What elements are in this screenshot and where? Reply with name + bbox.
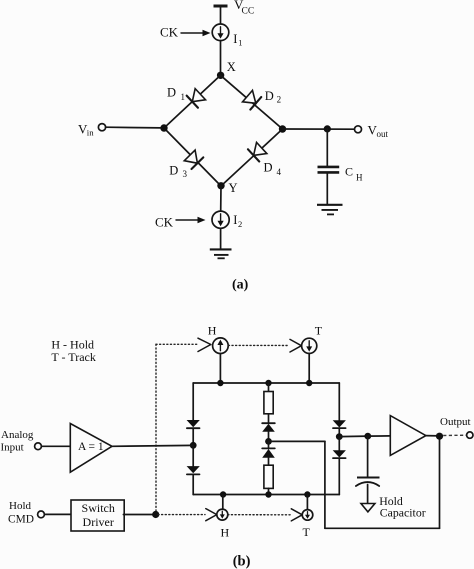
svg-text:CC: CC xyxy=(242,7,255,17)
dotted control line: to top H source xyxy=(156,343,198,345)
diode (left top, down) xyxy=(187,420,200,428)
wire hold node to buffer xyxy=(368,435,391,437)
junction middle column / rail xyxy=(265,491,271,497)
label D3 xyxy=(169,163,187,179)
feedback wire: down xyxy=(324,441,326,528)
svg-text:D: D xyxy=(264,161,273,175)
Vcc supply bar xyxy=(214,0,255,17)
output node xyxy=(436,433,443,440)
wire X to left node xyxy=(164,75,221,128)
svg-text:H: H xyxy=(356,172,363,182)
dotted control line: vertical xyxy=(155,344,157,514)
left column wire (top) xyxy=(192,383,194,420)
arrowhead into bottom T source xyxy=(291,509,302,521)
wire mid node to lower diode xyxy=(268,441,270,448)
svg-text:Switch: Switch xyxy=(82,501,115,515)
wire hold node to capacitor xyxy=(367,436,369,476)
left mid node (input tap) xyxy=(190,442,197,449)
label D1 xyxy=(167,86,185,103)
svg-text:T - Track: T - Track xyxy=(51,350,95,364)
junction node (CH tap) xyxy=(324,125,331,132)
ground (below CH) xyxy=(317,205,343,215)
svg-text:Hold: Hold xyxy=(9,500,32,512)
svg-text:Capacitor: Capacitor xyxy=(380,506,426,520)
left column wire (bottom) xyxy=(192,474,194,494)
analog ground arrow xyxy=(361,504,375,512)
feedback wire: mid node right xyxy=(269,440,325,442)
op-amp A=1 xyxy=(70,424,112,473)
svg-text:3: 3 xyxy=(183,169,188,179)
svg-text:2: 2 xyxy=(238,219,242,229)
svg-text:CMD: CMD xyxy=(8,514,34,526)
wire right node to Vout xyxy=(283,128,355,130)
bottom rail xyxy=(193,494,339,496)
dotted control line: H to T xyxy=(228,344,289,346)
resistor (middle top) xyxy=(264,392,273,414)
current source T (bottom) xyxy=(302,510,313,521)
Vout terminal xyxy=(355,123,389,140)
stem T source to top rail xyxy=(308,353,310,383)
wire diode to mid node xyxy=(268,432,270,442)
stem rail to bottom H source xyxy=(222,495,224,510)
diode (left bottom, down) xyxy=(187,466,200,474)
svg-text:D: D xyxy=(167,86,176,100)
diode D4 xyxy=(248,142,267,162)
top rail xyxy=(193,382,339,384)
diode D1 xyxy=(187,88,206,108)
wire right node to Y xyxy=(221,129,283,186)
junction bottom T / rail xyxy=(304,491,310,497)
wire amp to left mid node xyxy=(112,444,193,447)
diode D2 xyxy=(242,90,261,110)
svg-text:CK: CK xyxy=(160,25,179,40)
wire right mid to lower diode xyxy=(338,437,340,451)
output buffer xyxy=(390,416,426,456)
current source H (top) xyxy=(213,338,229,354)
svg-text:CK: CK xyxy=(155,215,174,230)
Analog Input terminal xyxy=(35,443,42,450)
right mid node (output tap) xyxy=(336,433,343,440)
wire left node to Y xyxy=(164,128,221,186)
junction T / top rail xyxy=(306,380,312,386)
wire switch driver to junction xyxy=(123,514,154,516)
svg-text:H: H xyxy=(221,526,230,540)
wire right mid node to hold node xyxy=(339,435,368,438)
node X xyxy=(217,60,236,79)
arrowhead into top T source xyxy=(290,339,301,352)
wire Vcc to I1 xyxy=(220,6,222,24)
Analog Input label xyxy=(1,429,34,454)
svg-text:Y: Y xyxy=(229,181,238,195)
svg-text:4: 4 xyxy=(277,167,282,177)
arrowhead into top H source xyxy=(198,338,211,351)
switch driver box xyxy=(71,500,124,531)
wire terminal to amp xyxy=(41,445,70,447)
ground (below I2) xyxy=(210,249,232,258)
wire buffer to output node xyxy=(426,435,440,437)
wire junction to CH xyxy=(326,129,328,166)
diode (middle top, up) xyxy=(262,423,275,432)
stem rail to bottom T source xyxy=(306,495,308,510)
wire to left mid node xyxy=(192,428,194,445)
current source H (bottom) xyxy=(217,509,228,520)
CK arrow into I1 xyxy=(181,30,211,36)
dotted control line: bottom H to T xyxy=(228,514,291,516)
svg-text:X: X xyxy=(227,60,236,74)
arrowhead into bottom H source xyxy=(206,509,217,521)
junction H / top rail xyxy=(217,380,223,386)
feedback wire: bottom xyxy=(325,527,440,529)
Hold Capacitor label xyxy=(379,494,426,520)
right bridge node xyxy=(279,125,286,132)
svg-text:out: out xyxy=(377,129,389,139)
middle column wire (top) xyxy=(268,383,270,392)
svg-text:(a): (a) xyxy=(232,278,249,293)
diode (right top, down) xyxy=(333,420,346,428)
svg-text:A = 1: A = 1 xyxy=(78,441,104,453)
svg-text:D: D xyxy=(169,163,178,177)
svg-text:D: D xyxy=(265,89,274,103)
Hold CMD terminal xyxy=(38,511,45,518)
wire Vin to left node xyxy=(106,126,161,129)
feedback wire: up to output node xyxy=(439,436,441,528)
Hold CMD label xyxy=(8,500,34,526)
svg-text:Input: Input xyxy=(1,442,24,454)
wire capacitor to analog ground xyxy=(367,485,369,504)
svg-text:1: 1 xyxy=(181,92,186,102)
stem H source to top rail xyxy=(219,354,221,384)
svg-text:Output: Output xyxy=(440,416,471,428)
diode D3 xyxy=(184,150,204,169)
dotted control line: to bottom H source xyxy=(158,514,205,516)
wire CH to ground xyxy=(326,174,328,204)
svg-text:Analog: Analog xyxy=(1,429,34,441)
wire X to right node xyxy=(221,75,283,129)
dashed wire to Output terminal xyxy=(443,434,466,436)
current source I1 xyxy=(212,24,242,47)
right column wire (top) xyxy=(338,383,340,420)
svg-text:T: T xyxy=(303,525,311,539)
junction bottom H / rail xyxy=(220,491,226,497)
junction switch driver / control line xyxy=(152,511,159,518)
capacitor CH xyxy=(318,165,364,183)
hold capacitor xyxy=(356,478,380,487)
Output terminal xyxy=(467,432,473,438)
middle mid node (feedback tap) xyxy=(265,438,272,445)
svg-text:(b): (b) xyxy=(233,554,251,569)
wire left mid to lower diode xyxy=(192,445,194,466)
current source T (top) xyxy=(302,338,317,353)
label D4 xyxy=(264,161,282,178)
label D2 xyxy=(265,89,281,104)
svg-text:T: T xyxy=(315,323,323,337)
middle column wire (bottom) xyxy=(268,488,270,494)
wire to right mid node xyxy=(338,428,340,437)
wire Y to I2 xyxy=(220,186,222,211)
right column wire (bottom) xyxy=(338,458,340,494)
hold node xyxy=(364,433,371,440)
svg-text:I: I xyxy=(233,32,237,46)
Vin terminal xyxy=(78,122,106,138)
svg-text:1: 1 xyxy=(238,37,242,47)
wire I2 to ground xyxy=(220,228,222,249)
svg-text:Driver: Driver xyxy=(83,515,114,529)
junction middle column / top rail xyxy=(265,380,271,386)
svg-text:I: I xyxy=(233,213,237,227)
wire diode to resistor xyxy=(268,458,270,465)
CK arrow into I2 xyxy=(176,217,206,223)
diode (right bottom, down) xyxy=(333,450,346,458)
svg-text:2: 2 xyxy=(277,94,282,104)
svg-text:C: C xyxy=(345,165,353,179)
node Y xyxy=(217,181,237,195)
wire terminal to switch driver xyxy=(44,513,70,515)
resistor (middle bottom) xyxy=(264,465,273,488)
current source I2 xyxy=(212,211,242,229)
left bridge node xyxy=(160,124,167,131)
wire resistor to diode xyxy=(268,414,270,423)
svg-text:H: H xyxy=(208,324,217,338)
svg-text:in: in xyxy=(87,128,94,138)
diode (middle bottom, up) xyxy=(262,448,275,457)
wire I1 to node X xyxy=(220,41,222,73)
